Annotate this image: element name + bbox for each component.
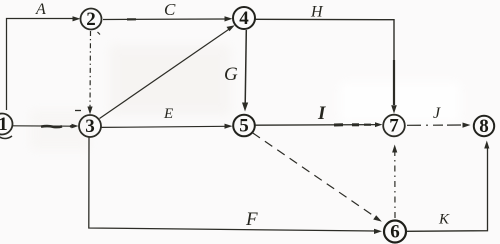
dummy arrow 6 to 7 (dashed vertical)	[394, 150, 396, 218]
wire J dashed (7 to 8)	[407, 124, 464, 126]
wire K (6 right then up to 8)	[407, 147, 488, 231]
arrowhead into node 2	[73, 16, 81, 21]
dummy arrow 2 to 3 (dashed)	[89, 31, 92, 108]
svg-text:K: K	[438, 212, 450, 228]
svg-text:8: 8	[479, 116, 489, 137]
svg-text:C: C	[164, 0, 176, 19]
node 8	[474, 116, 494, 137]
node 4	[233, 7, 255, 29]
svg-text:I: I	[317, 103, 326, 124]
node 2	[81, 9, 102, 31]
dummy arrow 5 to 6 (dashed diagonal)	[253, 133, 377, 218]
wire I (5 to 7)	[255, 124, 378, 127]
svg-text:3: 3	[85, 116, 95, 137]
wire G (4 to 5)	[245, 30, 246, 104]
wire B (1 to 3)	[13, 125, 74, 128]
node 1	[0, 114, 13, 139]
wire D diagonal (3 to 4)	[100, 29, 231, 119]
svg-text:6: 6	[390, 222, 400, 243]
svg-text:F: F	[245, 209, 258, 230]
wire A (1 to 2, up then right)	[7, 19, 75, 111]
svg-text:E: E	[163, 106, 173, 122]
svg-text:2: 2	[86, 9, 96, 30]
tick below node 2	[98, 32, 101, 35]
svg-text:7: 7	[389, 116, 399, 137]
svg-text:J: J	[433, 105, 441, 122]
svg-text:5: 5	[239, 116, 249, 137]
svg-text:G: G	[224, 64, 238, 85]
node 5	[233, 115, 255, 137]
svg-text:A: A	[35, 1, 46, 18]
wire E (3 to 5)	[102, 126, 227, 127]
node 3	[79, 115, 101, 137]
wire F (3 down then right to 6)	[89, 137, 376, 231]
svg-text:1: 1	[0, 114, 8, 135]
wire C (2 to 4)	[103, 18, 226, 21]
svg-text:4: 4	[239, 8, 249, 29]
svg-text:H: H	[310, 4, 324, 21]
wire H (4 right then down to 7)	[256, 19, 395, 105]
node 6	[384, 221, 406, 243]
node 7	[383, 115, 405, 137]
minus tick near node 3	[75, 110, 81, 112]
